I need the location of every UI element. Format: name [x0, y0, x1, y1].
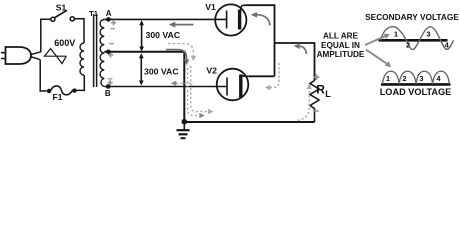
- wire fuse to primary bottom: [77, 75, 85, 90]
- polarity + near A: [111, 20, 116, 25]
- svg-text:3: 3: [426, 30, 430, 39]
- fuse F1: [47, 86, 77, 95]
- svg-text:R: R: [316, 83, 325, 97]
- vacuum tube V1: [215, 4, 246, 35]
- flow dashed path inner down to ground corner: [188, 68, 205, 118]
- polarity - above B: [108, 78, 113, 80]
- vacuum tube V2: [217, 69, 249, 101]
- switch S1: [51, 10, 75, 21]
- secondary waveform sine: [381, 27, 454, 50]
- wire upper-left vertical to switch: [41, 19, 51, 52]
- polarity - below RL: [313, 110, 318, 112]
- flow dashed arrow into V2 plate area: [265, 63, 279, 90]
- svg-text:600V: 600V: [54, 38, 75, 48]
- svg-text:EQUAL IN: EQUAL IN: [321, 41, 360, 50]
- wire plug tip to lower line: [30, 56, 40, 59]
- svg-text:300 VAC: 300 VAC: [146, 30, 181, 40]
- svg-text:AMPLITUDE: AMPLITUDE: [317, 50, 365, 59]
- svg-text:T1: T1: [89, 9, 98, 18]
- svg-text:V1: V1: [205, 2, 216, 12]
- svg-text:3: 3: [419, 74, 423, 83]
- wire switch to primary top: [75, 19, 85, 43]
- wire lower-left vertical to fuse: [40, 60, 47, 91]
- svg-text:LOAD VOLTAGE: LOAD VOLTAGE: [380, 87, 452, 97]
- 300 VAC measure arrow lower: [139, 53, 144, 85]
- svg-text:ALL ARE: ALL ARE: [323, 32, 359, 41]
- label ALL ARE EQUAL IN AMPLITUDE: [317, 32, 365, 59]
- flow curved arrow at V1 plate: [251, 12, 270, 26]
- AC plug P1: [1, 47, 31, 64]
- wire plug tip to upper line: [30, 52, 41, 55]
- transformer T1 core: [94, 14, 97, 87]
- 300 VAC measure arrow upper: [139, 20, 144, 51]
- svg-text:1: 1: [394, 30, 398, 39]
- ground symbol: [177, 122, 190, 139]
- flow dashed arrow above B wire: [171, 81, 194, 86]
- flow curved arrow at output corner: [294, 43, 307, 54]
- flow dashed curve outside center-tap corner: [168, 44, 196, 61]
- secondary waveform axis: [379, 39, 448, 42]
- polarity + below center tap: [108, 52, 113, 57]
- flow solid curve at center-tap corner: [166, 50, 189, 65]
- svg-text:F1: F1: [53, 92, 63, 102]
- center tap dot: [106, 50, 111, 55]
- wire A to V1 cathode: [104, 18, 226, 20]
- svg-text:V2: V2: [206, 65, 217, 75]
- svg-text:2: 2: [402, 74, 406, 83]
- svg-text:B: B: [105, 89, 111, 98]
- wire B to V2 cathode: [104, 86, 227, 88]
- resistor RL: [310, 81, 319, 123]
- AC source sine symbol: [44, 49, 67, 64]
- flow dashed path outer down to ground corner: [191, 66, 214, 114]
- svg-text:2: 2: [406, 41, 410, 50]
- transformer T1 secondary winding: [100, 20, 104, 87]
- current flow arrow on A wire: [169, 22, 194, 28]
- transformer T1 primary winding: [80, 43, 84, 75]
- polarity - above center tap: [109, 43, 114, 45]
- svg-text:1: 1: [386, 74, 390, 83]
- secondary wave numbers 1 2 3 4: [394, 30, 450, 50]
- polarity + above RL: [314, 74, 320, 80]
- wire center tap to ground junction: [104, 52, 184, 122]
- svg-text:L: L: [325, 89, 331, 99]
- svg-text:S1: S1: [56, 3, 67, 13]
- pointer arrow to load waveform: [366, 50, 391, 68]
- svg-text:SECONDARY VOLTAGE: SECONDARY VOLTAGE: [365, 12, 459, 22]
- load waveform humps: [383, 71, 450, 84]
- node B terminal dot: [106, 84, 111, 89]
- pointer arrow to secondary waveform: [365, 34, 390, 45]
- ground junction dot: [182, 119, 188, 125]
- polarity + above B: [108, 80, 113, 85]
- flow dashed arrow up through RL: [298, 84, 313, 121]
- polarity - below A: [110, 28, 115, 30]
- wire RL bottom to ground junction: [184, 121, 314, 123]
- wire V1 plate to output corner: [246, 5, 275, 76]
- svg-text:300 VAC: 300 VAC: [144, 66, 179, 76]
- node A terminal dot: [106, 17, 111, 22]
- load wave numbers 1 2 3 4: [386, 74, 442, 83]
- svg-text:A: A: [106, 9, 112, 18]
- wire output node to RL top: [275, 43, 315, 81]
- load waveform axis: [381, 83, 451, 86]
